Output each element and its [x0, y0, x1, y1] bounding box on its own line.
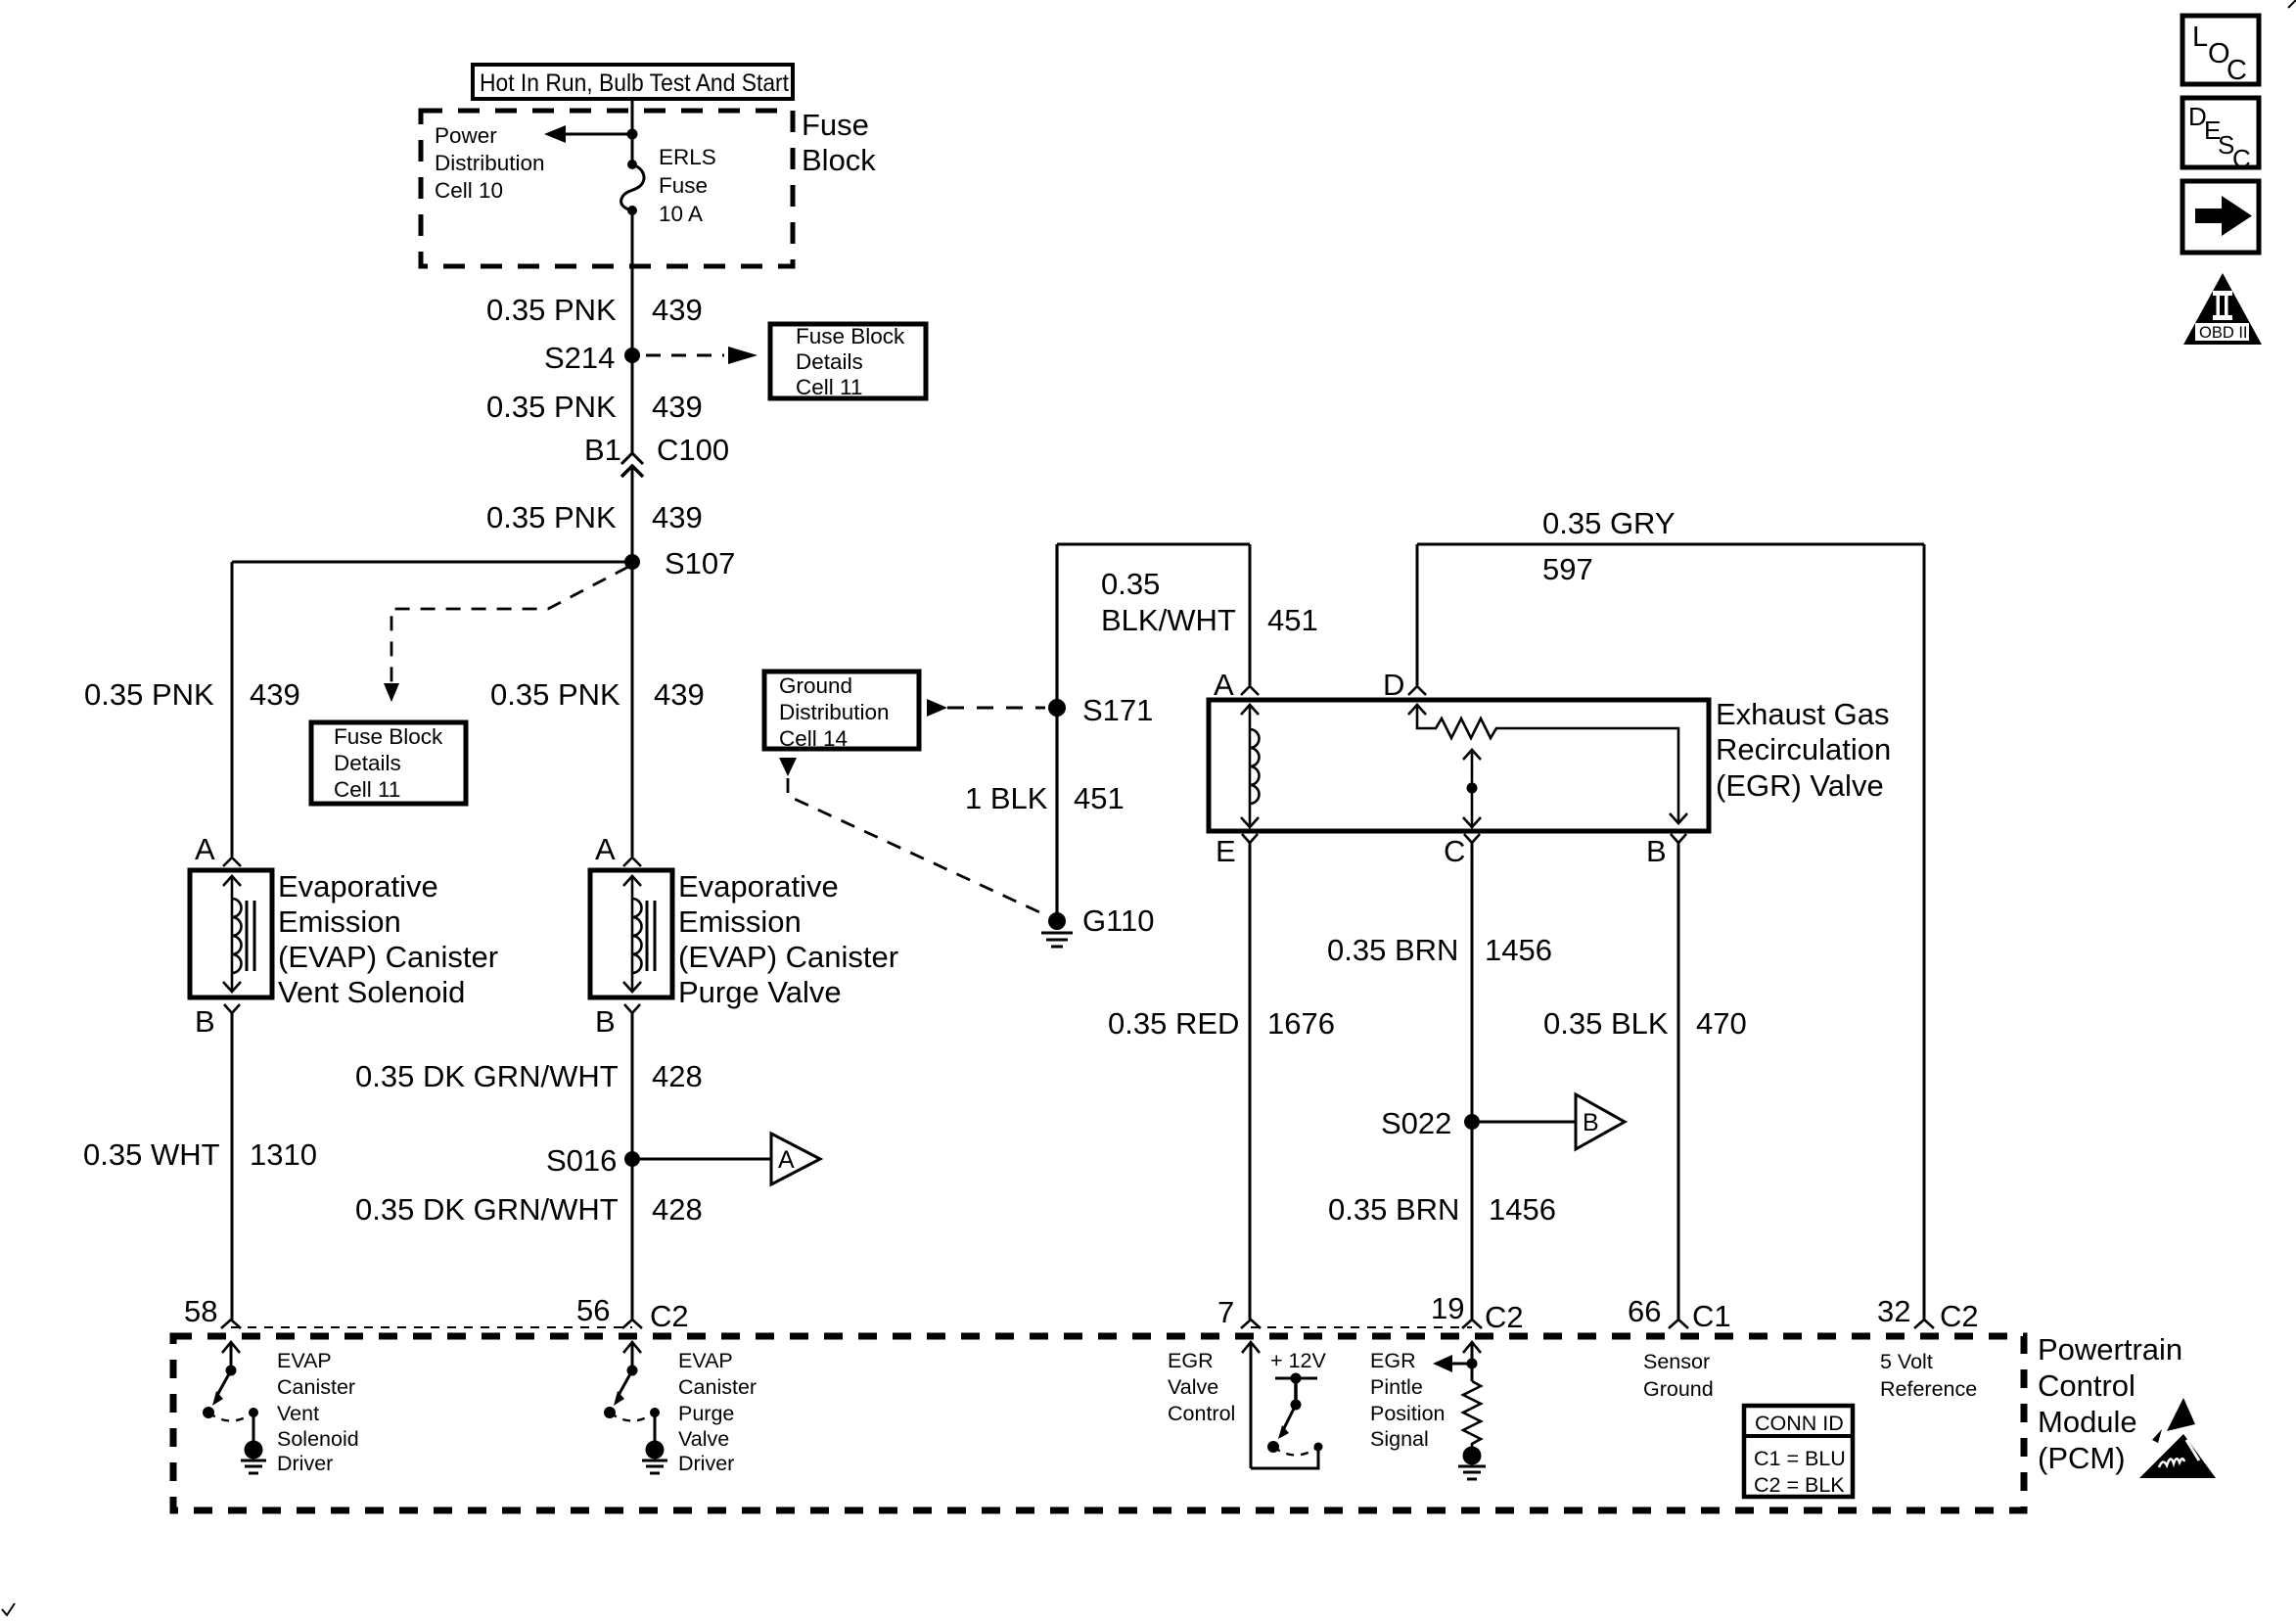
reference box Ground Distribution Cell 14: [764, 672, 919, 751]
svg-text:Vent: Vent: [277, 1402, 319, 1425]
connector dashed line pins 58-56: [231, 1326, 632, 1328]
svg-text:Distribution: Distribution: [435, 151, 545, 175]
label EVAP Canister Purge Valve Driver: [678, 1349, 757, 1475]
wire EGR C to PCM pin 19: [1471, 843, 1474, 1320]
dashed reference path from S107: [384, 567, 628, 702]
svg-text:0.35 PNK: 0.35 PNK: [84, 677, 214, 712]
pin 19 connector: [1431, 1291, 1524, 1334]
label 0.35 BRN 1456 (lower): [1328, 1192, 1556, 1227]
PCM dashed box: [173, 1336, 2024, 1510]
svg-text:B: B: [1583, 1109, 1599, 1136]
svg-text:0.35 BRN: 0.35 BRN: [1328, 1192, 1459, 1227]
label 0.35 BLK/WHT 451: [1101, 567, 1318, 637]
svg-text:0.35: 0.35: [1101, 567, 1160, 601]
svg-text:Ground: Ground: [1643, 1377, 1714, 1401]
svg-text:470: 470: [1696, 1006, 1747, 1041]
EGR solenoid coil (A-E): [1241, 705, 1260, 827]
LOC legend box: [2182, 16, 2259, 86]
svg-text:Emission: Emission: [678, 904, 802, 939]
svg-text:Emission: Emission: [278, 904, 401, 939]
svg-text:439: 439: [250, 677, 300, 712]
svg-text:+ 12V: + 12V: [1270, 1349, 1326, 1372]
svg-text:0.35 PNK: 0.35 PNK: [486, 500, 617, 534]
EGR potentiometer wiper (C): [1463, 750, 1481, 827]
label Evaporative Emission (EVAP) Canister Vent Solenoid: [278, 869, 498, 1009]
svg-text:1676: 1676: [1267, 1006, 1335, 1041]
svg-text:Vent Solenoid: Vent Solenoid: [278, 975, 465, 1009]
svg-text:S107: S107: [665, 546, 735, 580]
label 0.35 DK GRN/WHT 428 (upper): [355, 1059, 703, 1093]
svg-text:Canister: Canister: [277, 1375, 355, 1399]
svg-text:439: 439: [654, 677, 705, 712]
in-line connector C100 pin B1: [584, 433, 729, 477]
arrow legend box: [2182, 181, 2259, 253]
svg-text:C2 = BLK: C2 = BLK: [1754, 1473, 1845, 1497]
wire BLK/WHT 451 from EGR pin A to G110: [1057, 544, 1250, 921]
label Evaporative Emission (EVAP) Canister Purge Valve: [678, 869, 898, 1009]
svg-text:0.35 DK GRN/WHT: 0.35 DK GRN/WHT: [355, 1059, 619, 1093]
svg-text:5 Volt: 5 Volt: [1880, 1350, 1933, 1373]
EGR valve box: [1209, 700, 1709, 831]
svg-text:EVAP: EVAP: [277, 1349, 332, 1372]
wire S107 branch to left: [232, 561, 632, 564]
svg-text:32: 32: [1877, 1294, 1910, 1328]
corner mark bottom left: [2, 1603, 15, 1615]
wire C100 to S107: [631, 466, 634, 857]
pin B connector (left EVAP): [195, 1004, 240, 1039]
svg-text:Cell 11: Cell 11: [796, 375, 862, 399]
svg-text:439: 439: [652, 500, 703, 534]
label 0.35 GRY 597: [1542, 506, 1676, 586]
splice S171: [1048, 693, 1153, 727]
svg-text:Valve: Valve: [678, 1427, 729, 1451]
wire S016 to triangle A: [640, 1158, 771, 1161]
EVAP canister purge valve driver: [604, 1342, 667, 1473]
svg-text:439: 439: [652, 390, 703, 424]
node junction in fuse block: [627, 129, 638, 140]
splice S214: [544, 341, 640, 375]
splice S022: [1381, 1106, 1480, 1140]
svg-text:BLK/WHT: BLK/WHT: [1101, 603, 1236, 637]
CONN ID table: [1744, 1406, 1853, 1497]
label 5 Volt Reference: [1880, 1350, 1977, 1401]
svg-text:Control: Control: [2038, 1368, 2135, 1403]
svg-text:1456: 1456: [1485, 933, 1552, 967]
pin A connector (EGR): [1214, 668, 1259, 702]
svg-text:(EGR) Valve: (EGR) Valve: [1716, 768, 1884, 803]
EGR pintle position signal sense resistor: [1433, 1342, 1486, 1479]
fuse block dashed box: [421, 111, 793, 266]
label 0.35 RED 1676: [1108, 1006, 1335, 1041]
label EGR Valve Control: [1168, 1349, 1235, 1425]
svg-text:Signal: Signal: [1370, 1427, 1429, 1451]
reference box Fuse Block Details Cell 11 (upper): [770, 324, 926, 399]
dashed arrow S214 to fuse block details: [646, 347, 758, 364]
svg-text:Distribution: Distribution: [779, 700, 890, 724]
svg-text:C2: C2: [650, 1299, 689, 1333]
EGR pintle potentiometer resistor: [1408, 705, 1687, 823]
svg-text:Driver: Driver: [678, 1452, 734, 1475]
svg-text:ERLS: ERLS: [659, 145, 716, 169]
dashed arrow ground distribution to G110: [779, 758, 1048, 916]
svg-text:Solenoid: Solenoid: [277, 1427, 359, 1451]
svg-text:EGR: EGR: [1168, 1349, 1214, 1372]
svg-text:EGR: EGR: [1370, 1349, 1416, 1372]
wire EGR B to PCM pin 66: [1677, 843, 1680, 1320]
label 0.35 PNK 439 (row 1): [486, 293, 703, 327]
svg-text:Ground: Ground: [779, 673, 852, 698]
svg-text:0.35 RED: 0.35 RED: [1108, 1006, 1239, 1041]
svg-text:56: 56: [576, 1293, 610, 1327]
wire fuse to S214: [631, 210, 634, 452]
svg-text:0.35 WHT: 0.35 WHT: [83, 1137, 220, 1172]
svg-text:Exhaust Gas: Exhaust Gas: [1716, 697, 1889, 731]
label 0.35 PNK 439 (right branch): [490, 677, 705, 712]
EGR valve control driver switch: [1242, 1342, 1326, 1468]
svg-text:7: 7: [1217, 1295, 1234, 1329]
svg-text:Position: Position: [1370, 1402, 1446, 1425]
fuse block label: [802, 108, 876, 177]
off-page triangle A: [771, 1134, 820, 1184]
svg-text:C1 = BLU: C1 = BLU: [1754, 1447, 1846, 1470]
svg-text:428: 428: [652, 1192, 703, 1227]
off-page triangle B: [1576, 1094, 1625, 1149]
svg-text:E: E: [1216, 834, 1236, 868]
svg-text:Cell 14: Cell 14: [779, 726, 848, 751]
svg-text:Evaporative: Evaporative: [678, 869, 839, 904]
svg-text:Control: Control: [1168, 1402, 1235, 1425]
svg-text:S171: S171: [1082, 693, 1153, 727]
svg-text:58: 58: [184, 1294, 217, 1328]
svg-text:B: B: [1646, 834, 1667, 868]
svg-text:Reference: Reference: [1880, 1377, 1977, 1401]
label ERLS Fuse 10 A: [659, 145, 716, 226]
label EVAP Canister Vent Solenoid Driver: [277, 1349, 359, 1475]
reference box Fuse Block Details Cell 11 (lower): [311, 722, 466, 804]
corner tick top right: [2288, 0, 2296, 8]
label Powertrain Control Module (PCM): [2038, 1332, 2182, 1475]
EVAP canister vent solenoid driver: [203, 1342, 266, 1473]
label Power Distribution Cell 10: [435, 123, 545, 203]
svg-text:EVAP: EVAP: [678, 1349, 733, 1372]
wire EGR pin A lead: [1249, 544, 1252, 685]
svg-text:Evaporative: Evaporative: [278, 869, 438, 904]
EVAP canister vent solenoid: [190, 870, 272, 997]
svg-text:Cell 10: Cell 10: [435, 178, 503, 203]
splice S016: [546, 1143, 640, 1178]
svg-text:Purge Valve: Purge Valve: [678, 975, 842, 1009]
svg-text:1310: 1310: [250, 1137, 317, 1172]
svg-text:0.35 BLK: 0.35 BLK: [1543, 1006, 1669, 1041]
wire EGR E to PCM pin 7: [1249, 843, 1252, 1320]
svg-text:Fuse: Fuse: [659, 173, 708, 198]
wire left branch down to EVAP vent solenoid: [231, 562, 234, 857]
wire S022 to triangle B: [1480, 1121, 1576, 1124]
pin C connector (EGR): [1444, 834, 1480, 868]
label 1 BLK 451: [965, 781, 1125, 815]
ESD sensitivity symbol: [2139, 1398, 2216, 1478]
label 0.35 PNK 439 (row 3): [486, 500, 703, 534]
svg-text:Power: Power: [435, 123, 497, 148]
svg-text:C: C: [2227, 55, 2247, 86]
svg-text:A: A: [595, 832, 616, 866]
svg-text:Details: Details: [796, 349, 863, 374]
wire EVAP purge valve to PCM pin 56: [631, 1013, 634, 1320]
svg-text:D: D: [1383, 668, 1404, 702]
pin 7 connector: [1217, 1295, 1261, 1329]
pin A connector (right EVAP): [595, 832, 641, 866]
svg-text:(PCM): (PCM): [2038, 1441, 2126, 1475]
svg-text:0.35 PNK: 0.35 PNK: [490, 677, 620, 712]
pin B connector (EGR): [1646, 834, 1686, 868]
splice S107: [624, 546, 735, 580]
svg-text:Fuse: Fuse: [802, 108, 869, 142]
svg-text:C100: C100: [657, 433, 729, 467]
label 0.35 PNK 439 (row 2): [486, 390, 703, 424]
svg-text:Cell 11: Cell 11: [334, 777, 400, 802]
label 0.35 BRN 1456 (upper): [1327, 933, 1552, 967]
wire GRY 597 from EGR pin D to PCM pin 32: [1417, 544, 1924, 1320]
svg-text:C1: C1: [1692, 1299, 1731, 1333]
svg-text:Recirculation: Recirculation: [1716, 732, 1891, 766]
svg-text:Module: Module: [2038, 1405, 2137, 1439]
svg-text:0.35 PNK: 0.35 PNK: [486, 293, 617, 327]
svg-text:G110: G110: [1082, 904, 1155, 938]
pin D connector (EGR): [1383, 668, 1426, 702]
svg-text:428: 428: [652, 1059, 703, 1093]
label 0.35 PNK 439 (left branch): [84, 677, 300, 712]
svg-text:B1: B1: [584, 433, 621, 467]
svg-text:Powertrain: Powertrain: [2038, 1332, 2182, 1367]
svg-text:1 BLK: 1 BLK: [965, 781, 1048, 815]
label 0.35 WHT 1310: [83, 1137, 317, 1172]
label EGR Pintle Position Signal: [1370, 1349, 1446, 1451]
svg-text:(EVAP) Canister: (EVAP) Canister: [678, 940, 898, 974]
DESC legend box: [2182, 98, 2259, 173]
dashed arrow ground distribution to S171: [927, 699, 1045, 717]
pin 58 connector: [184, 1294, 241, 1328]
svg-text:1456: 1456: [1489, 1192, 1556, 1227]
svg-text:19: 19: [1431, 1291, 1464, 1325]
pin E connector (EGR): [1216, 834, 1258, 868]
svg-text:597: 597: [1542, 552, 1593, 586]
EVAP canister purge valve: [590, 870, 672, 997]
svg-text:0.35 PNK: 0.35 PNK: [486, 390, 617, 424]
svg-text:451: 451: [1074, 781, 1125, 815]
svg-text:0.35 BRN: 0.35 BRN: [1327, 933, 1458, 967]
pin 66 connector: [1628, 1294, 1731, 1333]
svg-text:Pintle: Pintle: [1370, 1375, 1423, 1399]
label Exhaust Gas Recirculation (EGR) Valve: [1716, 697, 1891, 803]
svg-text:0.35 DK GRN/WHT: 0.35 DK GRN/WHT: [355, 1192, 619, 1227]
fuse ERLS 10A symbol: [621, 160, 644, 215]
svg-text:Fuse Block: Fuse Block: [796, 324, 905, 348]
svg-text:451: 451: [1267, 603, 1318, 637]
svg-text:Driver: Driver: [277, 1452, 333, 1475]
svg-text:C2: C2: [1940, 1299, 1979, 1333]
svg-text:S022: S022: [1381, 1106, 1451, 1140]
svg-text:Sensor: Sensor: [1643, 1350, 1710, 1373]
svg-text:Canister: Canister: [678, 1375, 757, 1399]
svg-text:B: B: [195, 1004, 215, 1039]
ground G110: [1041, 904, 1155, 947]
pin B connector (right EVAP): [595, 1004, 640, 1039]
pin 32 connector: [1877, 1294, 1979, 1333]
svg-text:C2: C2: [1485, 1300, 1524, 1334]
svg-text:66: 66: [1628, 1294, 1661, 1328]
svg-text:Purge: Purge: [678, 1402, 734, 1425]
label 0.35 BLK 470: [1543, 1006, 1747, 1041]
svg-text:CONN ID: CONN ID: [1755, 1412, 1844, 1435]
label Sensor Ground: [1643, 1350, 1714, 1401]
svg-text:Block: Block: [802, 143, 876, 177]
svg-text:S214: S214: [544, 341, 615, 375]
svg-text:OBD II: OBD II: [2199, 324, 2248, 342]
svg-text:C: C: [1444, 834, 1465, 868]
svg-text:(EVAP) Canister: (EVAP) Canister: [278, 940, 498, 974]
svg-text:A: A: [1214, 668, 1234, 702]
OBD II symbol: [2183, 273, 2262, 345]
pin A connector (left EVAP): [195, 832, 241, 866]
connector dashed line pins 7-19: [1251, 1326, 1472, 1328]
svg-text:A: A: [778, 1146, 795, 1174]
svg-text:A: A: [195, 832, 215, 866]
svg-text:Hot In Run, Bulb Test And Star: Hot In Run, Bulb Test And Start: [480, 70, 789, 97]
svg-text:0.35 GRY: 0.35 GRY: [1542, 506, 1676, 540]
svg-text:10 A: 10 A: [659, 202, 703, 226]
wire arrow to power distribution: [544, 125, 632, 143]
pin 56 connector: [576, 1293, 689, 1333]
svg-text:Valve: Valve: [1168, 1375, 1218, 1399]
svg-text:Details: Details: [334, 751, 401, 775]
svg-text:C: C: [2232, 144, 2251, 173]
wire EVAP vent solenoid to PCM pin 58: [231, 1013, 234, 1320]
svg-text:Fuse Block: Fuse Block: [334, 724, 443, 749]
svg-text:S016: S016: [546, 1143, 617, 1178]
label 0.35 DK GRN/WHT 428 (lower): [355, 1192, 703, 1227]
svg-text:439: 439: [652, 293, 703, 327]
title box "Hot In Run, Bulb Test And Start": [473, 65, 793, 99]
svg-text:L: L: [2192, 22, 2208, 53]
svg-text:B: B: [595, 1004, 616, 1039]
wire from title box to fuse: [631, 99, 634, 164]
